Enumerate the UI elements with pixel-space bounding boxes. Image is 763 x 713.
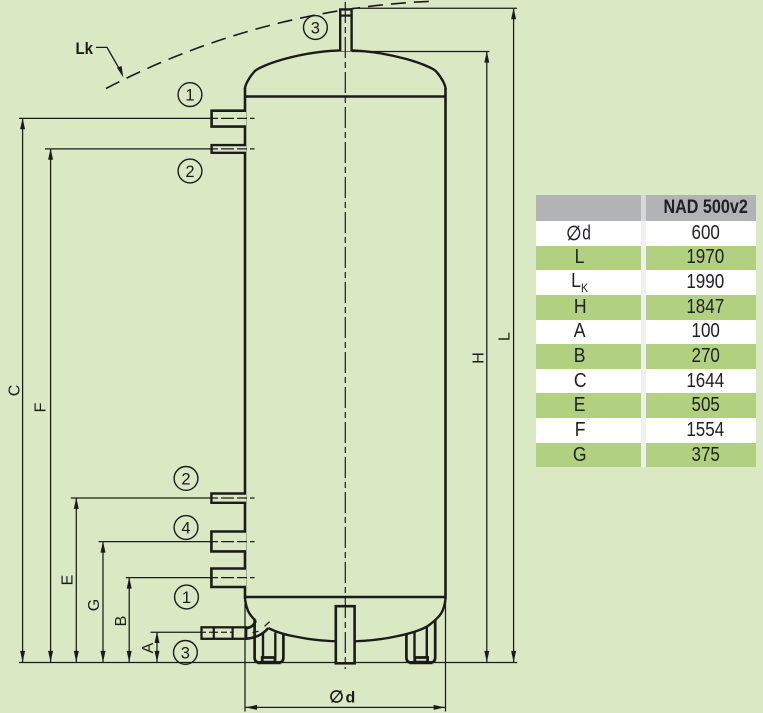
pipe 1 lower left	[211, 569, 246, 588]
pipe 3 tube centerline dash	[253, 631, 259, 632]
dim line E	[75, 499, 77, 663]
ext line L top	[352, 7, 517, 9]
pipe 3 bottom elbow outline	[246, 621, 268, 639]
Lk dashed curve	[106, 1, 431, 88]
pipe 2 upper left	[212, 145, 246, 153]
Lk leader arrow	[117, 66, 123, 78]
dim line diameter	[246, 706, 445, 708]
ext line pipe1 lower centerline	[126, 577, 208, 579]
node 2 bottom	[174, 467, 198, 491]
rotated dimension labels	[6, 332, 513, 653]
svg-text:F: F	[33, 402, 50, 412]
ext line pipe2 lower centerline	[71, 497, 208, 499]
dim line F	[50, 150, 52, 663]
dim line B	[128, 578, 130, 662]
svg-text:1: 1	[185, 87, 194, 105]
spec table	[536, 195, 756, 468]
tank dome	[245, 50, 446, 88]
leg right	[406, 621, 435, 663]
arrow B bottom	[127, 651, 132, 662]
svg-text:B: B	[113, 616, 130, 627]
tank left wall	[244, 88, 247, 599]
arrow H top	[484, 51, 489, 62]
ext line pipe1 top centerline	[19, 117, 208, 119]
arrow H bottom	[484, 651, 489, 662]
tank vertical centerline	[344, 2, 346, 669]
arrow F bottom	[48, 651, 53, 662]
arrow A bottom	[155, 651, 160, 662]
node 3 bottom	[174, 641, 198, 665]
Lk leader line	[96, 47, 120, 69]
node 1 top	[178, 83, 202, 107]
tank bottom dish main curve	[268, 599, 445, 641]
arrow diameter right	[434, 705, 445, 710]
node 3 top	[304, 16, 328, 40]
ext line pipe3 bottom centerline	[151, 631, 200, 633]
tank top weld seam	[245, 95, 446, 98]
svg-text:A: A	[140, 642, 157, 653]
svg-text:3: 3	[181, 644, 190, 662]
arrow diameter left	[246, 705, 257, 710]
arrow G bottom	[101, 651, 106, 662]
pipe 3 top	[340, 9, 351, 51]
callout circles	[174, 16, 328, 665]
ext line diameter right	[445, 601, 447, 712]
node 2 top	[178, 159, 202, 183]
ext line diameter left	[244, 604, 246, 712]
ext line H top	[352, 51, 490, 53]
arrow E bottom	[74, 651, 79, 662]
arrow A top	[155, 632, 160, 643]
pipe 3 bend centerline dash	[265, 622, 270, 627]
svg-text:1: 1	[182, 589, 191, 607]
arrow E top	[74, 498, 79, 509]
arrow L bottom	[511, 651, 516, 662]
svg-text:d: d	[346, 690, 356, 707]
svg-text:E: E	[60, 575, 77, 586]
bottom center pipe	[336, 606, 355, 663]
arrow L top	[511, 8, 516, 19]
dim line A	[156, 633, 158, 662]
pipe 1 upper left	[212, 111, 246, 127]
svg-text:C: C	[6, 385, 23, 397]
pipe 2 lower left	[211, 494, 246, 503]
node 4	[174, 516, 198, 540]
svg-text:4: 4	[181, 520, 190, 538]
svg-text:d: d	[582, 222, 591, 243]
tank bottom weld seam	[245, 596, 446, 599]
dim line C	[22, 119, 24, 662]
node 1 bottom	[175, 585, 199, 609]
pipe 3 bottom flange	[202, 627, 247, 639]
svg-text:Lk: Lk	[76, 39, 94, 58]
ext line pipe4 centerline	[99, 541, 208, 543]
arrow C bottom	[20, 651, 25, 662]
tank right wall	[444, 88, 447, 599]
arrow F top	[48, 148, 53, 159]
wire: ground baseline	[19, 662, 517, 664]
arrows	[20, 8, 516, 710]
dim line G	[102, 542, 104, 662]
svg-text:L: L	[497, 332, 514, 341]
svg-text:2: 2	[185, 163, 194, 181]
pipe 4 left	[211, 532, 246, 552]
arrow C top	[20, 118, 25, 129]
svg-text:G: G	[86, 599, 103, 611]
arrow G top	[101, 541, 106, 552]
dim line H	[486, 52, 488, 662]
ext line pipe2 top centerline	[45, 148, 208, 150]
svg-text:H: H	[470, 352, 487, 364]
arrow B top	[127, 577, 132, 588]
svg-text:2: 2	[181, 470, 190, 488]
dim line L	[513, 9, 515, 662]
leg left	[255, 621, 284, 663]
svg-text:3: 3	[311, 20, 320, 38]
label diameter d bottom	[331, 690, 355, 707]
tank bottom dish left shoulder	[245, 599, 256, 621]
